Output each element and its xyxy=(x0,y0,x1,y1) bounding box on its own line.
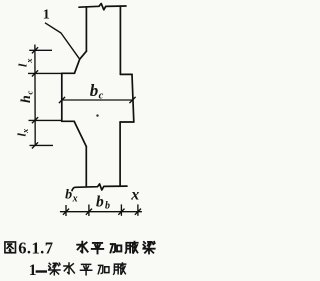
tick at x=66 xyxy=(63,209,69,215)
column left edge xyxy=(61,73,63,121)
scan speckle dot xyxy=(96,114,98,116)
glyph 水 xyxy=(77,241,87,252)
svg-text:b: b xyxy=(90,81,99,100)
extension line at haunch end (bottom) xyxy=(30,144,54,146)
svg-text:c: c xyxy=(99,91,104,102)
glyph 平 xyxy=(80,264,91,275)
glyph 梁 xyxy=(49,263,60,275)
tick b_c left xyxy=(59,97,65,103)
caption line 1: 图 6.1.7 水平加腋梁 xyxy=(5,238,155,257)
tick at y=145.4 xyxy=(32,142,38,148)
svg-text:1: 1 xyxy=(29,262,37,279)
upper haunch diagonal xyxy=(75,51,87,73)
svg-text:x: x xyxy=(130,186,139,203)
upper beam left edge xyxy=(85,7,87,51)
left dimension line xyxy=(34,45,36,147)
glyph 水 xyxy=(64,263,74,274)
extension line at haunch start (top) xyxy=(29,49,52,51)
svg-text:b: b xyxy=(105,201,110,212)
upper beam right edge xyxy=(119,6,121,74)
tick b_c right xyxy=(129,97,135,103)
svg-text:6.1.7: 6.1.7 xyxy=(18,238,53,257)
tick at x=137.9 xyxy=(135,209,141,215)
lower beam right edge xyxy=(119,122,121,186)
svg-text:b: b xyxy=(65,187,72,202)
column bottom face left segment xyxy=(62,120,74,122)
extension at beam left edge xyxy=(88,205,90,217)
glyph 图 xyxy=(5,242,16,253)
svg-text:x: x xyxy=(72,194,78,205)
extension at column right edge xyxy=(137,204,139,215)
svg-text:x: x xyxy=(24,58,34,64)
tick at x=121.4 xyxy=(118,209,124,215)
glyph 梁 xyxy=(143,242,154,254)
b_c dimension line inside column xyxy=(62,99,133,101)
em dash xyxy=(36,270,47,272)
column top face left segment xyxy=(62,72,75,74)
svg-text:c: c xyxy=(24,91,34,95)
glyph 腋 xyxy=(114,263,126,275)
lower beam left edge xyxy=(85,147,87,186)
extension line at column bottom face xyxy=(29,119,63,121)
column right edge xyxy=(132,74,134,122)
lower haunch diagonal xyxy=(74,121,86,146)
column bottom face right segment xyxy=(120,121,134,123)
bottom break line of lower beam xyxy=(72,184,127,191)
tick at y=73.4 xyxy=(32,70,38,76)
caption line 2: 1—梁水平加腋 xyxy=(29,262,126,279)
glyph 加 xyxy=(110,244,121,252)
column top face right segment xyxy=(120,73,132,75)
extension line at column top face xyxy=(28,72,62,74)
svg-text:1: 1 xyxy=(43,8,50,23)
glyph 平 xyxy=(92,243,103,254)
glyph 腋 xyxy=(126,241,138,253)
extension at haunch outer edge xyxy=(65,205,67,216)
extension at beam right edge xyxy=(120,204,122,215)
glyph 加 xyxy=(98,265,109,273)
bottom dimension line xyxy=(60,211,142,213)
svg-text:h: h xyxy=(19,95,34,103)
svg-text:x: x xyxy=(20,128,30,134)
top break line of upper beam xyxy=(79,4,126,10)
tick at y=50.3 xyxy=(32,47,38,53)
tick at y=120.2 xyxy=(32,117,38,123)
svg-text:b: b xyxy=(96,193,104,210)
tick at x=88.9 xyxy=(86,209,92,215)
leader line from label 1 to upper haunch xyxy=(45,23,80,59)
